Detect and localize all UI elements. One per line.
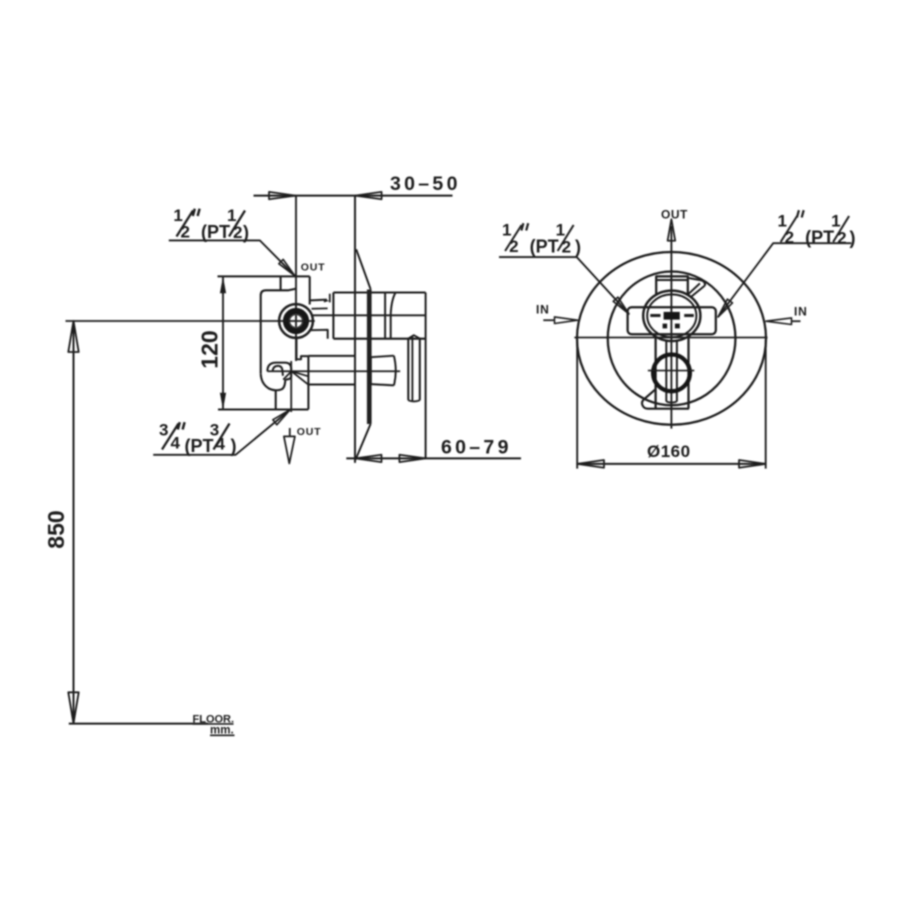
- dimension 120 bottom arrow: [220, 393, 226, 410]
- elbow outer contour: [267, 363, 291, 380]
- leader arrowhead to manifold left: [613, 297, 629, 314]
- lever left edge: [665, 341, 667, 402]
- svg-text:OUT: OUT: [297, 426, 322, 438]
- lever bottom cap: [666, 402, 677, 403]
- IN arrow left: [543, 319, 555, 321]
- OUT bottom flow arrow: [284, 436, 295, 463]
- svg-text:120: 120: [197, 330, 223, 368]
- neck lower wall: [310, 330, 328, 339]
- dimension 60-79 left arrow: [355, 455, 381, 462]
- top tab inner line: [656, 279, 688, 281]
- label 1/2 (PT 1/2) front-left: [502, 221, 581, 258]
- main body left edge: [260, 296, 262, 374]
- label 3/4 double prime: [178, 422, 185, 429]
- bottom port block left edge: [275, 390, 277, 409]
- floor line: [69, 723, 208, 725]
- label front-right double prime: [797, 210, 804, 217]
- handle grip left edge: [407, 338, 409, 401]
- label front-right underline and leader: [718, 243, 851, 317]
- union nut curved face: [394, 356, 396, 386]
- manifold mid dash left: [650, 314, 660, 317]
- svg-text:IN: IN: [536, 303, 550, 317]
- leader arrowhead to bottom outlet: [273, 410, 290, 425]
- bottom port centerline vertical: [290, 361, 292, 412]
- top port block left edge: [332, 293, 334, 339]
- svg-text:): ): [850, 228, 856, 248]
- union nut bottom edge: [371, 384, 394, 385]
- label 1/2 fraction slashes: [177, 211, 194, 237]
- side flap fold line A: [687, 283, 700, 295]
- dimension D160 left arrow: [577, 460, 604, 468]
- label front-left underline and leader: [499, 257, 629, 314]
- elbow inner arc: [273, 366, 283, 376]
- handle grip right edge: [419, 338, 421, 401]
- svg-text:(PT: (PT: [805, 228, 834, 248]
- dimension D160 extension right: [765, 339, 767, 469]
- svg-text:OUT: OUT: [301, 262, 326, 274]
- valve body top edge / 120 top extension: [218, 275, 310, 277]
- dimension 30-50 line: [254, 192, 453, 199]
- dimension 120 top arrow: [220, 276, 226, 293]
- mm. underline: [210, 734, 235, 736]
- IN arrow right: [791, 320, 801, 322]
- leader arrowhead to manifold right: [718, 299, 733, 317]
- label 1/2 (PT 1/2) top left: [173, 206, 249, 243]
- union nut left edge: [370, 357, 372, 384]
- elbow cone line left: [283, 371, 291, 379]
- svg-text:2: 2: [785, 228, 794, 247]
- wall flange right edge: [370, 289, 372, 424]
- dimension 850 top arrow: [68, 321, 78, 352]
- label 3/4 fraction slashes: [162, 424, 179, 450]
- svg-text:2: 2: [509, 237, 518, 256]
- horizontal centerline through circle (from 850 dim): [66, 320, 315, 322]
- stem housing left edge: [654, 338, 656, 409]
- inlet manifold bar: [628, 307, 716, 334]
- body bottom edge / 120 bottom extension: [218, 408, 308, 410]
- dimension 60-79 line: [346, 457, 521, 459]
- top port cone curve: [391, 293, 396, 315]
- svg-text:60–79: 60–79: [441, 437, 512, 459]
- escutcheon inner ellipse: [608, 272, 736, 406]
- cartridge center dark rectangle: [664, 312, 680, 320]
- OUT bottom flow arrow stem: [289, 428, 291, 436]
- lever right edge: [676, 341, 678, 402]
- valve inlet inner hole: [290, 315, 303, 328]
- leader arrowhead to top outlet: [279, 259, 295, 275]
- stem foot: [642, 389, 689, 409]
- wall flange top taper: [356, 249, 370, 289]
- cartridge outer circle: [643, 291, 700, 341]
- handle grip top peak: [408, 335, 420, 338]
- dimension 850 vertical line: [73, 321, 75, 723]
- valve inlet circle outer: [279, 304, 313, 338]
- handle grip inner line: [411, 336, 413, 400]
- dimension 60-79 right arrow: [399, 455, 425, 462]
- svg-text:4: 4: [171, 434, 181, 453]
- label front-left double prime: [521, 223, 528, 230]
- svg-text:2: 2: [181, 223, 190, 242]
- top port inner vertical 2: [390, 315, 392, 339]
- top boss left edge: [280, 276, 282, 289]
- neck upper wall to top port: [311, 299, 327, 302]
- svg-text:30–50: 30–50: [390, 173, 461, 195]
- top port bore line: [311, 314, 426, 316]
- neck upper inner wall: [312, 307, 328, 309]
- vertical centerline front view: [670, 226, 672, 429]
- dimension 120 line: [222, 276, 224, 410]
- label front-left fraction slashes: [505, 225, 521, 251]
- handle grip bottom cap: [408, 400, 420, 401]
- bottom pipe bottom edge: [308, 383, 355, 385]
- neck tip vertical: [329, 294, 331, 303]
- wall flange left edge (also 30-50 right extension): [354, 196, 356, 463]
- side flap fold line B: [691, 286, 705, 297]
- centerline of top port (30-50 left extension): [295, 196, 297, 361]
- label 1/2 double prime: [193, 209, 200, 216]
- label 1/2 (PT 1/2) front-right: [778, 212, 856, 249]
- body right edge below circle: [297, 338, 309, 359]
- svg-text:(PT: (PT: [201, 222, 230, 242]
- elbow cone line lower: [292, 371, 309, 384]
- label front-right fraction slashes: [781, 216, 798, 242]
- manifold mid dash right: [684, 314, 694, 317]
- svg-text:): ): [231, 436, 237, 456]
- svg-text:OUT: OUT: [661, 208, 688, 222]
- bottom pipe left/block right edge: [307, 356, 309, 410]
- svg-text:850: 850: [43, 510, 69, 548]
- wall flange inner face band: [367, 290, 370, 425]
- svg-text:IN: IN: [794, 305, 808, 319]
- horizontal centerline front view: [574, 337, 767, 339]
- side flap top edge: [688, 278, 705, 286]
- cartridge inner circle: [647, 294, 696, 337]
- label 3/4 (PT 3/4) bottom left: [159, 420, 237, 456]
- top port inner vertical 1: [384, 293, 386, 339]
- svg-text:(PT: (PT: [530, 237, 559, 257]
- escutcheon outer ellipse: [577, 252, 766, 425]
- elbow cone line upper: [292, 371, 309, 376]
- svg-text:Ø160: Ø160: [647, 442, 691, 461]
- OUT flow arrow front view: [668, 219, 676, 241]
- bottom port centerline horizontal: [267, 370, 400, 372]
- svg-text:): ): [575, 237, 581, 257]
- top boss right edge: [309, 276, 311, 304]
- label 1/2 underline and leader: [169, 240, 295, 275]
- main body top edge: [261, 289, 296, 296]
- top mounting tab: [656, 276, 688, 294]
- valve inlet dark annulus: [286, 311, 306, 331]
- label 3/4 underline and leader: [153, 410, 290, 455]
- top port block bottom edge: [333, 338, 425, 340]
- neck tip triangle: [324, 299, 329, 303]
- volume knob circle: [653, 355, 690, 392]
- FLOOR. underline: [193, 723, 234, 725]
- cartridge screw dot left: [663, 324, 668, 329]
- dimension D160 line: [577, 463, 766, 465]
- stem housing right edge: [687, 338, 689, 409]
- dimension D160 right arrow: [739, 460, 766, 468]
- bottom pipe top edge: [308, 355, 355, 357]
- union nut top edge: [371, 356, 394, 358]
- wall flange bottom taper: [356, 424, 371, 460]
- body lower-left lobe outline: [261, 374, 286, 390]
- handle hub right edge / 60-79 extension: [425, 293, 427, 459]
- dimension 850 bottom arrow: [68, 692, 78, 723]
- top port block top edge: [333, 291, 425, 293]
- knob centerline: [648, 370, 694, 372]
- cartridge screw dot right: [675, 324, 680, 329]
- dimension D160 extension left: [576, 339, 578, 469]
- svg-text:3: 3: [159, 420, 168, 439]
